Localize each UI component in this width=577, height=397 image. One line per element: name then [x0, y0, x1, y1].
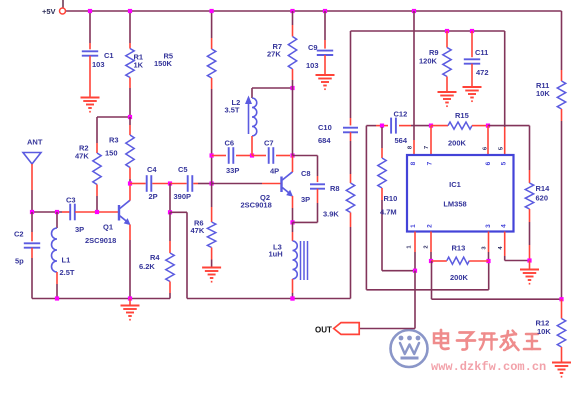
- svg-text:LM358: LM358: [443, 200, 466, 209]
- svg-text:564: 564: [395, 136, 408, 145]
- svg-text:2: 2: [424, 245, 430, 248]
- svg-text:3P: 3P: [301, 195, 310, 204]
- svg-text:C11: C11: [475, 48, 488, 57]
- svg-text:1: 1: [410, 224, 417, 228]
- svg-text:2P: 2P: [149, 192, 158, 201]
- svg-text:ANT: ANT: [27, 137, 43, 146]
- svg-text:472: 472: [476, 68, 489, 77]
- svg-text:C12: C12: [394, 110, 408, 119]
- svg-text:IC1: IC1: [449, 180, 461, 189]
- svg-text:390P: 390P: [174, 192, 192, 201]
- svg-text:200K: 200K: [450, 273, 469, 282]
- svg-text:C9: C9: [308, 43, 318, 52]
- svg-text:5: 5: [501, 161, 508, 165]
- svg-text:C8: C8: [301, 169, 311, 178]
- svg-text:C3: C3: [66, 196, 76, 205]
- svg-text:C1: C1: [104, 51, 114, 60]
- svg-text:103: 103: [92, 60, 105, 69]
- svg-text:Q1: Q1: [103, 223, 113, 232]
- svg-text:200K: 200K: [448, 139, 467, 148]
- svg-text:C6: C6: [225, 139, 235, 148]
- svg-text:3: 3: [485, 224, 492, 228]
- svg-text:R13: R13: [452, 244, 466, 253]
- svg-text:+5V: +5V: [42, 7, 56, 16]
- svg-text:R4: R4: [150, 253, 160, 262]
- svg-text:1uH: 1uH: [269, 250, 283, 259]
- svg-text:120K: 120K: [419, 57, 438, 66]
- svg-text:33P: 33P: [226, 166, 239, 175]
- svg-text:3P: 3P: [75, 225, 84, 234]
- svg-text:150: 150: [105, 149, 118, 158]
- svg-text:6.2K: 6.2K: [139, 262, 155, 271]
- svg-text:8: 8: [410, 161, 417, 165]
- svg-text:6: 6: [485, 161, 492, 165]
- svg-text:10K: 10K: [537, 327, 551, 336]
- svg-text:4.7M: 4.7M: [380, 208, 397, 217]
- svg-text:2.5T: 2.5T: [60, 268, 75, 277]
- svg-text:5p: 5p: [15, 257, 24, 266]
- svg-text:2SC9018: 2SC9018: [85, 236, 116, 245]
- svg-text:620: 620: [536, 194, 549, 203]
- svg-text:47K: 47K: [191, 226, 205, 235]
- svg-text:3.5T: 3.5T: [225, 106, 240, 115]
- svg-text:C5: C5: [178, 165, 188, 174]
- svg-text:27K: 27K: [267, 50, 281, 59]
- svg-text:4: 4: [501, 224, 508, 228]
- svg-text:7: 7: [427, 161, 434, 165]
- svg-text:OUT: OUT: [315, 326, 332, 335]
- svg-text:150K: 150K: [154, 59, 173, 68]
- svg-text:www.dzkfw.com.cn: www.dzkfw.com.cn: [431, 360, 546, 374]
- svg-text:1K: 1K: [134, 61, 144, 70]
- svg-text:R15: R15: [455, 111, 469, 120]
- svg-text:47K: 47K: [75, 151, 89, 160]
- svg-text:7: 7: [424, 146, 430, 149]
- svg-text:3.9K: 3.9K: [323, 210, 339, 219]
- svg-text:C7: C7: [264, 139, 274, 148]
- svg-text:2: 2: [427, 224, 434, 228]
- svg-text:C2: C2: [14, 230, 24, 239]
- svg-text:10K: 10K: [536, 89, 550, 98]
- svg-text:C10: C10: [318, 123, 332, 132]
- svg-text:R14: R14: [536, 184, 551, 193]
- svg-text:R8: R8: [330, 184, 340, 193]
- svg-text:4P: 4P: [270, 167, 279, 176]
- svg-text:2SC9018: 2SC9018: [241, 201, 272, 210]
- svg-text:R3: R3: [109, 136, 119, 145]
- svg-text:684: 684: [318, 136, 331, 145]
- svg-text:C4: C4: [147, 165, 157, 174]
- svg-text:103: 103: [306, 61, 319, 70]
- svg-text:R10: R10: [384, 194, 398, 203]
- svg-text:L1: L1: [62, 256, 71, 265]
